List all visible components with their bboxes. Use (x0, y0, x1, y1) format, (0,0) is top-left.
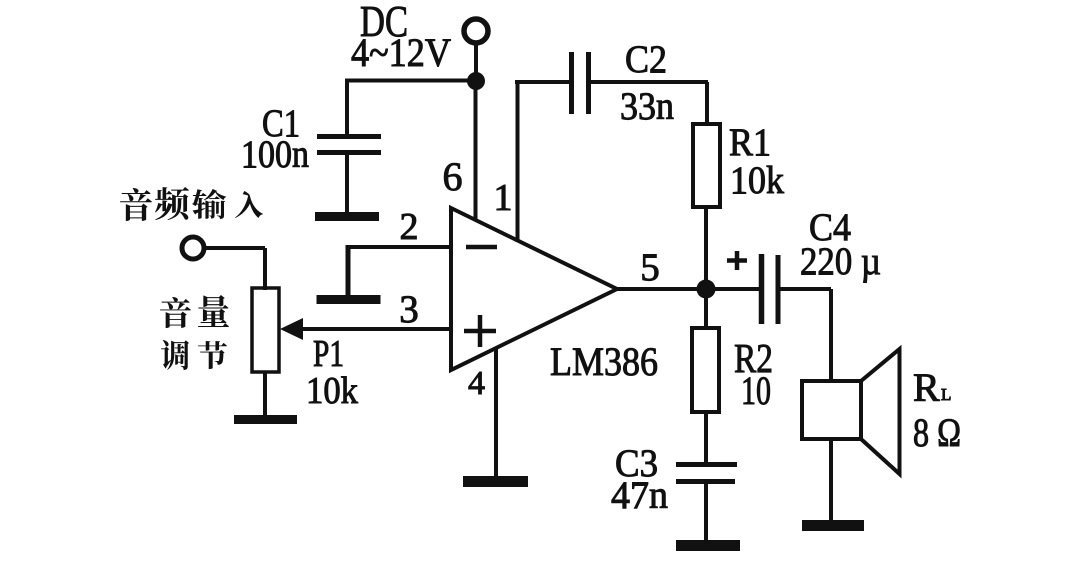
svg-text:4~12V: 4~12V (351, 30, 451, 75)
op-amp U1 LM386 (451, 208, 617, 370)
svg-text:10: 10 (741, 368, 771, 413)
svg-text:8 Ω: 8 Ω (913, 410, 961, 455)
terminal: DC supply input (464, 19, 488, 81)
label: DC 4~12V (351, 0, 451, 75)
junction: output node (697, 280, 716, 299)
ground (pin 4) (463, 476, 528, 487)
wire: output node 5 (617, 287, 759, 291)
label RL 8Ω (913, 365, 961, 455)
label C1 100n (241, 102, 309, 176)
capacitor C3 (676, 465, 737, 546)
wire: pin 3 non-inverting input (300, 327, 451, 331)
label: 音量调节 (160, 295, 229, 370)
svg-text:47n: 47n (611, 474, 668, 517)
ground (C1) (315, 212, 379, 221)
svg-text:6: 6 (443, 154, 463, 199)
svg-text:R1: R1 (729, 121, 771, 164)
pin label 5 (640, 246, 660, 289)
capacitor C4 (762, 254, 832, 383)
wire: pin 4 ground lead (494, 348, 498, 480)
svg-text:2: 2 (400, 206, 419, 248)
label R2 10 (734, 335, 773, 413)
label C4 220µ (800, 206, 881, 283)
svg-text:10k: 10k (730, 159, 784, 202)
wire: pin 2 inverting input (347, 245, 451, 249)
ground (C3) (676, 540, 740, 551)
ground (P1) (234, 415, 297, 424)
capacitor C4 polarity + (727, 251, 747, 270)
potentiometer P1 (252, 288, 303, 419)
wire: V+ rail (345, 79, 476, 83)
terminal: audio input (182, 237, 265, 290)
ground (speaker) (802, 520, 864, 531)
svg-text:R: R (913, 365, 940, 410)
label P1 10k (306, 333, 358, 412)
capacitor C1 (317, 79, 381, 213)
label C3 47n (611, 442, 668, 517)
label LM386 (550, 339, 658, 384)
resistor R2 (692, 289, 719, 464)
svg-text:1: 1 (494, 177, 513, 219)
svg-text:3: 3 (399, 288, 419, 331)
pin label 2 (400, 206, 419, 248)
pin label 1 (494, 177, 513, 219)
label C2 33n (620, 38, 674, 128)
svg-text:LM386: LM386 (550, 339, 658, 384)
svg-text:5: 5 (640, 246, 660, 289)
resistor R1 (693, 82, 720, 291)
capacitor C2 (572, 52, 709, 114)
svg-text:220 µ: 220 µ (800, 240, 881, 283)
svg-text:L: L (941, 385, 951, 404)
svg-text:10k: 10k (306, 370, 358, 412)
speaker RL (802, 349, 900, 525)
pin label 3 (399, 288, 419, 331)
svg-text:P1: P1 (313, 333, 344, 375)
pin label 6 (443, 154, 463, 199)
ground (pin 2) (317, 245, 381, 304)
svg-text:33n: 33n (620, 85, 674, 128)
label R1 10k (729, 121, 784, 202)
svg-text:100n: 100n (241, 133, 309, 176)
wire: pin 6 supply (474, 81, 478, 221)
label: 音频输入 (120, 187, 263, 221)
svg-text:4: 4 (468, 365, 485, 402)
svg-text:C2: C2 (625, 38, 667, 81)
wire: pin 1 to C2 (515, 82, 569, 242)
junction: V+ node (467, 72, 485, 90)
pin label 4 (468, 365, 485, 402)
